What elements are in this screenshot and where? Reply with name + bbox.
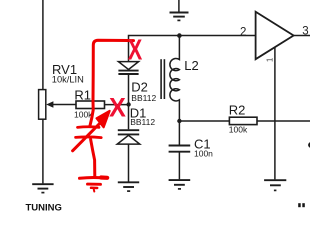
- red annotation wire from R1 area up and over to D2 top: [90, 40, 134, 125]
- node junction rail and L2: [177, 33, 182, 38]
- svg-text:10k/LIN: 10k/LIN: [52, 75, 84, 85]
- svg-text:X: X: [109, 94, 127, 123]
- ground top center: [170, 0, 189, 20]
- red variable capacitor top plate: [78, 125, 100, 128]
- svg-text:3: 3: [302, 25, 308, 37]
- svg-text:BB112: BB112: [131, 93, 156, 103]
- capacitor C1: [169, 146, 191, 152]
- svg-text:R1: R1: [74, 87, 91, 102]
- op-amp U1: [256, 12, 294, 60]
- red ground symbol: [80, 178, 108, 192]
- wire top rail from D2 corner to op-amp input: [129, 36, 256, 62]
- svg-text:100n: 100n: [194, 149, 213, 159]
- wire R1 to diode junction: [105, 104, 129, 106]
- partial character at right edge: [308, 142, 314, 148]
- wire D1 to ground: [128, 144, 130, 182]
- red arrow head: [97, 111, 110, 127]
- svg-text:L2: L2: [184, 58, 198, 73]
- red variable capacitor bottom plate: [76, 136, 102, 139]
- quotation mark bottom right: [298, 203, 305, 207]
- svg-text:2: 2: [240, 27, 246, 39]
- svg-text:X: X: [128, 35, 143, 66]
- ground under RV1: [32, 184, 53, 192]
- potentiometer RV1: [39, 90, 76, 120]
- resistor R2: [229, 117, 257, 124]
- ground under pin 1: [264, 180, 286, 190]
- svg-text:100k: 100k: [229, 125, 248, 135]
- wire junction to C1: [178, 121, 180, 145]
- resistor R1: [76, 101, 105, 109]
- wire C1 to ground: [178, 153, 180, 180]
- node junction between D1 and D2: [126, 102, 130, 106]
- inductor L2 coil: [170, 36, 180, 119]
- red arrow across variable capacitor: [73, 121, 103, 151]
- varicap diode D1: [117, 107, 140, 145]
- wire R2 right to edge: [257, 120, 310, 122]
- wire junction to R2: [179, 120, 229, 122]
- svg-text:TUNING: TUNING: [26, 202, 62, 213]
- wire pin 1 down to ground: [274, 47, 276, 179]
- wire RV1 bottom to ground: [42, 119, 44, 183]
- ground under D1: [118, 182, 139, 191]
- inductor L2 core lines: [161, 59, 164, 99]
- svg-text:1: 1: [266, 57, 275, 62]
- svg-text:R2: R2: [229, 103, 246, 118]
- red annotation wire below capacitor to ground: [91, 139, 95, 177]
- wire top-left vertical to RV1 top: [42, 0, 44, 90]
- svg-text:BB112: BB112: [130, 117, 155, 127]
- ground under C1: [169, 180, 191, 189]
- wire op-amp output: [294, 35, 310, 37]
- node junction L2 C1 R2: [177, 119, 181, 123]
- varicap diode D2: [118, 62, 138, 103]
